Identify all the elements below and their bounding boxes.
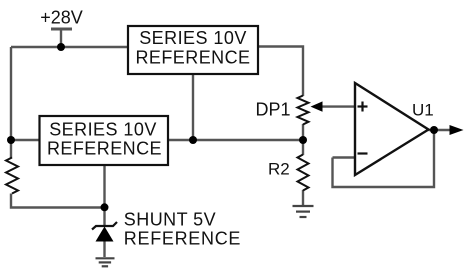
svg-text:DP1: DP1 [256,100,291,120]
svg-text:U1: U1 [412,101,434,120]
svg-text:R2: R2 [268,160,290,179]
svg-text:SHUNT 5V: SHUNT 5V [124,210,216,230]
svg-text:SERIES 10V: SERIES 10V [49,119,157,139]
svg-text:REFERENCE: REFERENCE [124,229,241,249]
svg-text:+28V: +28V [40,8,83,28]
svg-text:REFERENCE: REFERENCE [47,139,162,159]
svg-text:REFERENCE: REFERENCE [135,48,250,68]
svg-text:SERIES 10V: SERIES 10V [139,28,247,48]
